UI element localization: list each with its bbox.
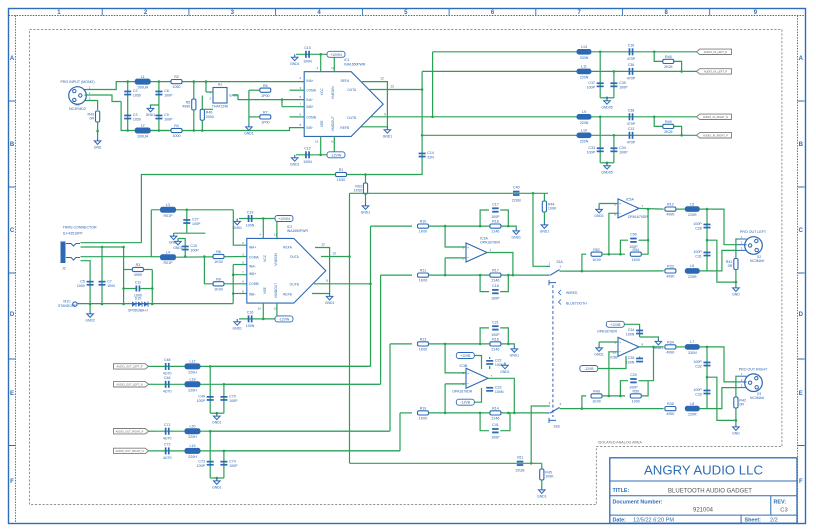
svg-text:INB−: INB− bbox=[306, 126, 313, 130]
junction bbox=[158, 129, 161, 132]
inductor L12 bbox=[185, 360, 200, 375]
svg-text:C18: C18 bbox=[492, 284, 499, 288]
junction bbox=[507, 274, 510, 277]
capacitor C20 bbox=[629, 373, 638, 390]
junction bbox=[647, 208, 650, 211]
junction bbox=[532, 192, 535, 195]
svg-text:OPA1679DR: OPA1679DR bbox=[628, 215, 648, 219]
wire INB+ stub bbox=[233, 265, 247, 275]
svg-text:100P: 100P bbox=[693, 222, 702, 226]
ground GND1 at U5B+ bbox=[594, 345, 604, 357]
wire out row N bbox=[154, 383, 380, 385]
svg-text:4U70: 4U70 bbox=[163, 456, 172, 460]
capacitor C28 bbox=[693, 222, 710, 230]
svg-text:10: 10 bbox=[331, 140, 335, 144]
wire IC1 OUTB out bbox=[371, 116, 433, 118]
junction bbox=[608, 253, 611, 256]
svg-text:R52: R52 bbox=[593, 248, 600, 252]
svg-text:22UB: 22UB bbox=[512, 198, 522, 202]
wire A corner to R1 bbox=[347, 168, 423, 175]
svg-text:2146: 2146 bbox=[491, 348, 499, 352]
svg-text:REFB: REFB bbox=[340, 126, 350, 130]
svg-text:R19: R19 bbox=[420, 407, 427, 411]
junction bbox=[444, 343, 447, 346]
wire lower run to IC1 INB- bbox=[182, 128, 304, 131]
resistor R4 bbox=[171, 124, 182, 138]
wire filter row N bbox=[592, 116, 700, 118]
wire C15 gnd bbox=[178, 239, 185, 244]
wire INB+ jog bbox=[281, 100, 283, 107]
svg-text:C40: C40 bbox=[513, 186, 520, 190]
gain block A1 bbox=[209, 83, 237, 109]
capacitor C36 bbox=[627, 63, 636, 80]
wire IC1 pin10 bbox=[333, 136, 335, 154]
svg-text:100N: 100N bbox=[303, 60, 312, 64]
svg-text:9: 9 bbox=[326, 279, 328, 283]
wire shunt1 bbox=[209, 366, 211, 413]
X3 pin numbers and stubs bbox=[737, 372, 747, 387]
svg-text:ISOLATED ANALOG AREA: ISOLATED ANALOG AREA bbox=[598, 441, 642, 445]
svg-text:100P: 100P bbox=[229, 464, 238, 468]
resistor R18 bbox=[490, 220, 501, 234]
wire INA- stub bbox=[233, 264, 247, 266]
wire U5B out bbox=[639, 346, 664, 348]
svg-text:100P: 100P bbox=[619, 150, 628, 154]
svg-text:100K: 100K bbox=[545, 475, 554, 479]
svg-text:C21: C21 bbox=[492, 320, 499, 324]
svg-text:R3: R3 bbox=[136, 263, 141, 267]
wire C18 loop right bbox=[500, 275, 508, 292]
wire U1B +in bbox=[445, 344, 466, 373]
inductor L2 bbox=[135, 124, 150, 139]
svg-text:PRO INPUT (MONO): PRO INPUT (MONO) bbox=[60, 80, 94, 84]
junction bbox=[444, 274, 447, 277]
svg-text:2K26: 2K26 bbox=[664, 130, 672, 134]
svg-text:100K: 100K bbox=[548, 207, 557, 211]
capacitor C74 bbox=[220, 459, 238, 467]
wire R5 bottom lead bbox=[193, 110, 195, 131]
wire R7 left lead bbox=[249, 116, 260, 118]
junction bbox=[151, 287, 154, 290]
svg-text:1P00: 1P00 bbox=[261, 94, 269, 98]
svg-text:L10: L10 bbox=[581, 129, 587, 133]
svg-text:C39: C39 bbox=[619, 81, 626, 85]
svg-text:PRO OUT LEFT: PRO OUT LEFT bbox=[740, 230, 767, 234]
op-amp U5B bbox=[618, 337, 639, 356]
junction bbox=[613, 70, 616, 73]
capacitor C13 bbox=[627, 127, 636, 144]
svg-text:COMB: COMB bbox=[306, 115, 317, 119]
column ticks top bbox=[102, 9, 710, 16]
wire R3 left bbox=[124, 269, 133, 271]
svg-text:R7: R7 bbox=[263, 111, 268, 115]
wire to GND16 bbox=[508, 226, 516, 228]
svg-text:ANGRY AUDIO LLC: ANGRY AUDIO LLC bbox=[644, 463, 763, 478]
junction bbox=[653, 51, 656, 54]
wire IC1 pin16 bbox=[320, 136, 322, 154]
inductor L5 bbox=[685, 202, 699, 217]
svg-text:4U70: 4U70 bbox=[163, 390, 172, 394]
svg-text:C17: C17 bbox=[492, 202, 499, 206]
wire C40 row bbox=[350, 192, 511, 194]
wire shunt cap branch 1 bbox=[599, 52, 601, 98]
inductor L13 bbox=[577, 45, 591, 60]
svg-text:C33: C33 bbox=[588, 146, 595, 150]
X3 labels bbox=[750, 392, 765, 400]
wire C10 rail bbox=[296, 53, 340, 55]
wire C50 loop left bbox=[620, 240, 628, 254]
wire TRRS tip to wire A bbox=[81, 242, 142, 244]
ground GND1 at IC2 REFB bbox=[325, 294, 335, 306]
svg-text:100P: 100P bbox=[491, 333, 500, 337]
svg-text:2/2: 2/2 bbox=[770, 517, 778, 523]
svg-text:GND05: GND05 bbox=[601, 170, 612, 174]
wire R49 to R50 bbox=[602, 395, 625, 397]
ground GND1 above C15 bbox=[173, 239, 183, 251]
wire INB- stub bbox=[233, 293, 247, 295]
junction bbox=[431, 116, 434, 119]
wire tag lead bbox=[149, 383, 155, 385]
svg-text:A: A bbox=[799, 56, 804, 62]
svg-text:COMA: COMA bbox=[306, 89, 317, 93]
capacitor C7 bbox=[99, 279, 116, 287]
svg-text:-12VB: -12VB bbox=[584, 367, 594, 371]
document number row bbox=[613, 500, 788, 514]
title row bbox=[613, 488, 753, 495]
net tag AUDIO_IN_RIGHT_N bbox=[697, 114, 732, 119]
wire C27 branch bbox=[186, 210, 188, 233]
resistor R35 bbox=[665, 402, 676, 416]
svg-text:BLUETOOTH: BLUETOOTH bbox=[566, 302, 587, 306]
svg-text:C73: C73 bbox=[198, 459, 205, 463]
wire R45 bottom bbox=[541, 480, 543, 487]
power tag +12VB at U5B bbox=[606, 321, 624, 327]
svg-text:GND1: GND1 bbox=[540, 230, 550, 234]
svg-text:100P: 100P bbox=[629, 245, 638, 249]
svg-text:220R: 220R bbox=[688, 275, 697, 279]
wire shunt cap branch 2 bbox=[613, 71, 615, 97]
svg-text:1K00: 1K00 bbox=[592, 400, 600, 404]
junction bbox=[479, 343, 482, 346]
switch S1B bbox=[547, 401, 562, 428]
wire C19 rail bbox=[239, 218, 283, 220]
svg-text:R11: R11 bbox=[420, 269, 426, 273]
junction bbox=[507, 343, 510, 346]
wire C17 loop left bbox=[480, 210, 489, 226]
svg-text:C16: C16 bbox=[247, 311, 254, 315]
wire TRRS ring1 bbox=[81, 246, 124, 248]
svg-text:10: 10 bbox=[613, 351, 617, 355]
wire row to R33 bbox=[582, 270, 664, 272]
svg-text:16: 16 bbox=[315, 140, 319, 144]
svg-text:L8: L8 bbox=[690, 402, 694, 406]
svg-text:470P: 470P bbox=[627, 77, 636, 81]
wire gnd stub bbox=[508, 344, 514, 346]
wire R12 to L5 bbox=[676, 208, 685, 210]
capacitor C31 bbox=[693, 250, 710, 258]
ground out filter bbox=[212, 413, 222, 425]
wire ring1 drop bbox=[101, 247, 103, 304]
wire X1 pin3 to R43 bbox=[86, 101, 98, 111]
ground GND1 at IC1 REFB bbox=[383, 127, 393, 139]
power tag +12VIN at IC2 bbox=[275, 216, 293, 222]
capacitor C39 bbox=[610, 81, 628, 89]
svg-text:OPA1679DR: OPA1679DR bbox=[452, 390, 472, 394]
wire R43 to GND bbox=[97, 122, 99, 138]
connector X2 PRO OUT LEFT bbox=[745, 237, 763, 255]
wire C mid gnd jog X3 bbox=[707, 377, 736, 420]
capacitor C73 bbox=[197, 459, 214, 467]
net tag AUDIO_IN_LEFT_P bbox=[697, 69, 732, 74]
wire IC1 pin11 bbox=[333, 54, 335, 71]
svg-text:INA1650PWR: INA1650PWR bbox=[344, 63, 366, 67]
junction bbox=[619, 253, 622, 256]
capacitor C3 bbox=[124, 113, 141, 121]
svg-text:C11: C11 bbox=[135, 280, 141, 284]
capacitor C16 bbox=[246, 311, 255, 328]
capacitor C70 bbox=[220, 395, 238, 403]
svg-text:E: E bbox=[799, 391, 803, 397]
resistor R49 bbox=[591, 390, 602, 404]
svg-text:GND1: GND1 bbox=[500, 370, 510, 374]
svg-text:REFB: REFB bbox=[283, 293, 293, 297]
junction bbox=[606, 97, 609, 100]
junction bbox=[619, 395, 622, 398]
wire filter row P bbox=[592, 70, 700, 72]
wire +12VB wire bbox=[624, 324, 639, 337]
svg-text:12: 12 bbox=[380, 77, 384, 81]
svg-text:R10: R10 bbox=[420, 220, 427, 224]
svg-text:E: E bbox=[10, 391, 14, 397]
wire R34 to L7 bbox=[676, 346, 685, 348]
wire R bridge right bbox=[673, 126, 682, 135]
junction bbox=[706, 208, 709, 211]
wire C8-C9 branch bbox=[158, 82, 160, 131]
junction bbox=[369, 283, 372, 286]
svg-text:NC3MAA: NC3MAA bbox=[750, 396, 765, 400]
svg-text:1050: 1050 bbox=[173, 85, 181, 89]
svg-text:VCC: VCC bbox=[263, 254, 267, 262]
svg-text:OUTA: OUTA bbox=[347, 88, 357, 92]
svg-text:100P: 100P bbox=[587, 150, 596, 154]
connector X3 PRO OUT RIGHT bbox=[745, 374, 763, 392]
net tag AUDIO_OUT_LEFT_N bbox=[114, 382, 149, 387]
resistor R42 bbox=[734, 397, 746, 408]
dashed gang line S1 bbox=[552, 285, 554, 417]
resistor R11 bbox=[418, 269, 429, 283]
svg-text:1000: 1000 bbox=[107, 284, 115, 288]
svg-text:IC3B: IC3B bbox=[460, 364, 468, 368]
resistor R52 bbox=[591, 248, 602, 262]
svg-text:R18: R18 bbox=[492, 220, 499, 224]
svg-text:220N: 220N bbox=[580, 139, 589, 143]
resistor R14 bbox=[490, 407, 501, 421]
wire R13 row left bbox=[390, 343, 412, 345]
svg-text:220R: 220R bbox=[688, 413, 697, 417]
svg-text:OUTB: OUTB bbox=[290, 283, 300, 287]
wire IC2 pin16 bbox=[262, 303, 264, 319]
svg-text:PRO OUT RIGHT: PRO OUT RIGHT bbox=[739, 367, 768, 371]
svg-text:0R: 0R bbox=[89, 117, 94, 121]
svg-text:12/5/22 6:20 PM: 12/5/22 6:20 PM bbox=[633, 517, 674, 523]
svg-text:12: 12 bbox=[321, 243, 325, 247]
resistor R54 bbox=[630, 248, 641, 262]
svg-text:1P00: 1P00 bbox=[261, 121, 269, 125]
capacitor C40 bbox=[512, 186, 522, 203]
title block frame bbox=[610, 458, 797, 523]
svg-text:C27: C27 bbox=[192, 218, 199, 222]
power tag -12VB at U1B bbox=[456, 399, 474, 405]
svg-text:L6: L6 bbox=[690, 264, 694, 268]
svg-text:C38: C38 bbox=[628, 109, 635, 113]
svg-text:100UH: 100UH bbox=[137, 86, 149, 90]
power tag -12VIN at IC2 bbox=[275, 316, 293, 322]
svg-text:NC3FMD2: NC3FMD2 bbox=[69, 107, 86, 111]
wire gnd stem bbox=[598, 342, 600, 345]
wire R44 bottom bbox=[543, 212, 545, 222]
junction bbox=[203, 255, 206, 258]
wire L5 to X2 pin2 bbox=[699, 209, 737, 245]
op-amp U5A label bbox=[626, 198, 648, 219]
svg-text:AUDIO_IN_RIGHT_N: AUDIO_IN_RIGHT_N bbox=[703, 115, 728, 119]
capacitor C12 bbox=[303, 147, 312, 164]
wire to GND1 mid bbox=[151, 105, 159, 106]
svg-text:GND1: GND1 bbox=[290, 62, 300, 66]
ground GND below R42 bbox=[732, 424, 740, 436]
svg-text:220H: 220H bbox=[188, 370, 197, 374]
ground GND1 right of R16 bbox=[510, 346, 520, 358]
capacitor C27 bbox=[183, 218, 201, 226]
wire gnd stem U5A bbox=[598, 204, 600, 207]
junction bbox=[479, 225, 482, 228]
switch S1A bbox=[547, 260, 564, 285]
wire IC1 OUTA out bbox=[369, 89, 422, 91]
resistor R49 bbox=[663, 124, 674, 128]
junction bbox=[512, 274, 515, 277]
svg-text:16: 16 bbox=[258, 306, 262, 310]
wire A1 tap bbox=[205, 82, 207, 92]
junction bbox=[184, 255, 187, 258]
svg-text:1K00: 1K00 bbox=[419, 279, 427, 283]
junction bbox=[613, 134, 616, 137]
svg-text:C13: C13 bbox=[628, 127, 635, 131]
capacitor C14 bbox=[419, 151, 435, 159]
svg-text:REFA: REFA bbox=[283, 246, 292, 250]
svg-text:100N: 100N bbox=[246, 224, 255, 228]
svg-text:C5: C5 bbox=[80, 279, 85, 283]
svg-text:R01P: R01P bbox=[164, 261, 174, 265]
svg-text:100P: 100P bbox=[197, 464, 206, 468]
wire C20 loop right bbox=[639, 380, 649, 382]
wire shunt2 bbox=[223, 451, 225, 478]
resistor R2 bbox=[171, 75, 182, 89]
svg-text:AUDIO_OUT_RIGHT_N: AUDIO_OUT_RIGHT_N bbox=[116, 449, 144, 453]
capacitor C37 bbox=[587, 81, 604, 89]
wire S1A throw feed bbox=[533, 193, 547, 266]
svg-text:VNEGIN: VNEGIN bbox=[274, 252, 278, 265]
wire lower run bbox=[143, 130, 183, 132]
wire R46 top to A1 bbox=[202, 96, 213, 110]
svg-text:GND1: GND1 bbox=[173, 246, 183, 250]
op-amp U1A bbox=[466, 243, 487, 262]
op-amp U5A bbox=[618, 199, 639, 218]
svg-text:D: D bbox=[799, 312, 804, 318]
wire fb up to out bbox=[648, 347, 653, 381]
svg-text:100P: 100P bbox=[629, 386, 638, 390]
wire tag lead bbox=[149, 365, 155, 367]
svg-text:AUDIO_OUT_LEFT_P: AUDIO_OUT_LEFT_P bbox=[116, 365, 142, 369]
svg-text:GND1: GND1 bbox=[212, 421, 222, 425]
capacitor C23 bbox=[486, 386, 504, 394]
svg-text:C35: C35 bbox=[628, 356, 635, 360]
wire X1 pin2 bbox=[86, 95, 121, 102]
wire IC1 pin4 VCC bbox=[320, 54, 322, 71]
svg-text:Document Number:: Document Number: bbox=[613, 500, 663, 506]
svg-text:L20: L20 bbox=[190, 424, 196, 428]
svg-text:L9: L9 bbox=[582, 110, 586, 114]
junction bbox=[262, 217, 265, 220]
svg-text:S1B: S1B bbox=[554, 424, 561, 428]
svg-text:AUDIO_IN_RIGHT_P: AUDIO_IN_RIGHT_P bbox=[703, 134, 728, 138]
wire U1A -in down bbox=[444, 258, 446, 275]
svg-text:R2: R2 bbox=[174, 75, 179, 79]
svg-text:TRRS CONNECTOR: TRRS CONNECTOR bbox=[63, 226, 97, 230]
svg-text:B: B bbox=[10, 142, 15, 148]
switch mode labels bbox=[559, 290, 588, 306]
svg-text:1K00: 1K00 bbox=[419, 417, 427, 421]
junction bbox=[101, 303, 104, 306]
wire input run top y81 bbox=[121, 81, 304, 83]
wire R19 row left bbox=[400, 412, 412, 414]
resistor R5 bbox=[182, 99, 196, 110]
ground GND below R45 bbox=[537, 487, 547, 499]
wire L4 left feed bbox=[151, 256, 160, 258]
svg-text:GND1: GND1 bbox=[146, 113, 156, 117]
wire R63 bottom lead bbox=[365, 194, 367, 203]
junction bbox=[530, 462, 533, 465]
wire C15 branch bbox=[184, 243, 186, 257]
junction bbox=[89, 303, 92, 306]
svg-text:100P: 100P bbox=[190, 249, 199, 253]
junction bbox=[348, 255, 351, 258]
svg-text:10: 10 bbox=[274, 306, 278, 310]
wire R42 to gnd bbox=[735, 408, 737, 424]
junction bbox=[319, 154, 322, 157]
wire input lower branch bbox=[121, 102, 169, 131]
wire OUTB net vertical bbox=[370, 226, 372, 366]
wire U5A -in feed bbox=[609, 213, 618, 254]
capacitor C8 bbox=[155, 89, 173, 97]
svg-text:100P: 100P bbox=[491, 215, 500, 219]
svg-text:220R: 220R bbox=[688, 213, 697, 217]
resistor R45 bbox=[540, 469, 555, 480]
svg-text:C22: C22 bbox=[495, 359, 502, 363]
svg-text:100P: 100P bbox=[619, 85, 628, 89]
svg-text:4990: 4990 bbox=[666, 213, 674, 217]
svg-text:GND1: GND1 bbox=[594, 353, 604, 357]
wire U5B -in feed bbox=[609, 352, 618, 396]
wire C17 loop right bbox=[500, 210, 508, 226]
wire -12VB wire bbox=[598, 356, 626, 369]
wire R13 row bbox=[429, 343, 509, 345]
svg-text:C72: C72 bbox=[164, 443, 171, 447]
svg-text:R8: R8 bbox=[216, 250, 221, 254]
junction bbox=[262, 318, 265, 321]
wire out row P bbox=[154, 365, 370, 367]
svg-text:4990: 4990 bbox=[134, 273, 142, 277]
wire loop right bbox=[500, 328, 508, 344]
svg-text:F: F bbox=[799, 479, 803, 485]
